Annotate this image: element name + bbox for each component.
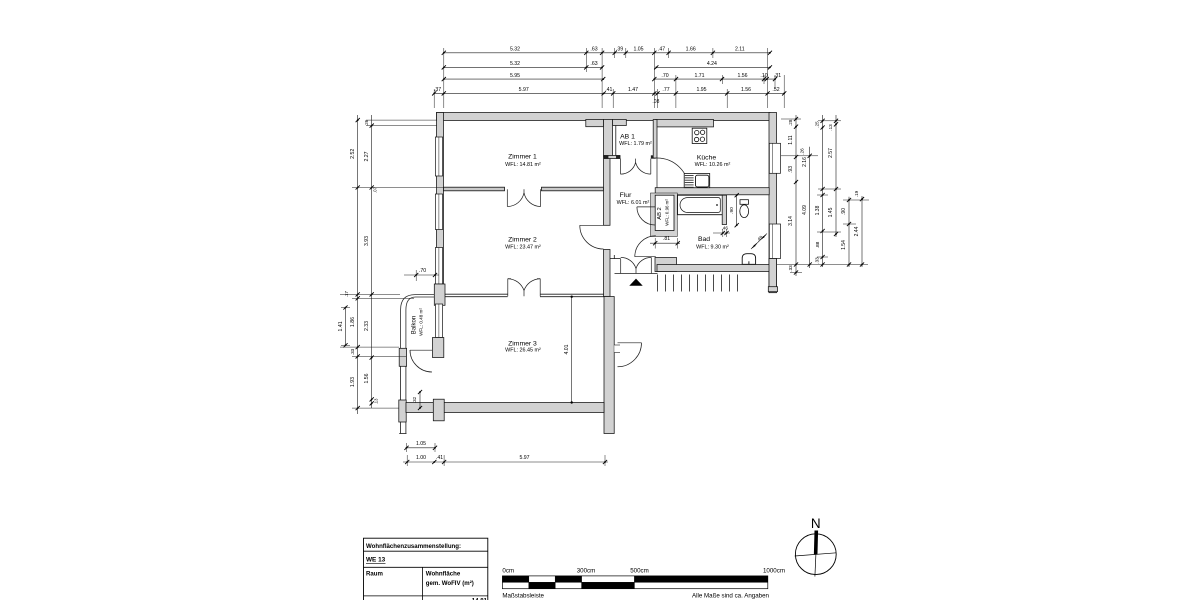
room: AB2 (white box) bbox=[651, 193, 678, 237]
svg-text:gem. WoFIV (m²): gem. WoFIV (m²) bbox=[426, 580, 474, 587]
fixture: bathtub bbox=[678, 195, 723, 215]
balcony: railing lines bottom bbox=[399, 422, 406, 434]
window: Zimmer3 upper left bbox=[435, 304, 442, 338]
svg-text:5.32: 5.32 bbox=[510, 61, 520, 67]
svg-text:1.86: 1.86 bbox=[350, 317, 356, 327]
room label: Balkon (rotated) bbox=[412, 308, 424, 336]
svg-text:1.47: 1.47 bbox=[628, 87, 638, 93]
wall: right exterior (Kueche/Bad) bbox=[769, 113, 777, 293]
svg-text:WFL: 26.45 m²: WFL: 26.45 m² bbox=[505, 347, 541, 353]
wall: right lower corner foot bbox=[768, 259, 777, 292]
dimension chain right col1: .28 1.11 .93 3.14 .33 bbox=[788, 115, 798, 276]
svg-text:.25: .25 bbox=[814, 121, 819, 128]
door: Flur to Kueche quarter arc bbox=[657, 158, 689, 190]
balcony: parapet block bbox=[399, 348, 406, 366]
dimension guides left bbox=[340, 120, 443, 408]
svg-text:WFL: 0.48 m²: WFL: 0.48 m² bbox=[419, 308, 424, 336]
window: Zimmer 2 left lower bbox=[435, 248, 442, 285]
svg-text:.17: .17 bbox=[344, 291, 349, 298]
svg-text:5.97: 5.97 bbox=[519, 455, 529, 461]
svg-text:Zimmer 1: Zimmer 1 bbox=[508, 154, 537, 161]
svg-text:5.32: 5.32 bbox=[510, 47, 520, 53]
svg-text:1.38: 1.38 bbox=[815, 205, 821, 215]
dimension chain right col6: .19 2.44 bbox=[854, 190, 864, 267]
svg-text:1.66: 1.66 bbox=[686, 47, 696, 53]
svg-text:.33: .33 bbox=[350, 348, 355, 355]
fixture: stove with 4 burners bbox=[692, 128, 707, 143]
svg-text:4.09: 4.09 bbox=[802, 205, 808, 215]
svg-text:.63: .63 bbox=[590, 61, 597, 67]
svg-text:1000cm: 1000cm bbox=[763, 567, 785, 574]
fixture: kitchen sink counter with drainer bbox=[684, 174, 710, 188]
fixture: washbasin bbox=[742, 254, 755, 265]
dimension row 2: 5.32 .63 / 4.24 bbox=[442, 61, 772, 69]
window: Bad right (recess) bbox=[769, 224, 780, 259]
wall: stairwell vertical (right of Zimmer3) bbox=[604, 297, 614, 434]
svg-text:.47: .47 bbox=[658, 47, 665, 53]
svg-text:Raum: Raum bbox=[366, 571, 384, 578]
room label: Zimmer 2 bbox=[505, 237, 541, 251]
wall: top exterior bbox=[437, 113, 771, 121]
svg-text:2.57: 2.57 bbox=[828, 148, 834, 158]
wall: AB1 bottom left segment with jambs bbox=[604, 156, 620, 159]
svg-text:1.54: 1.54 bbox=[841, 240, 847, 250]
svg-text:WFL: 6.01 m²: WFL: 6.01 m² bbox=[617, 200, 650, 206]
svg-text:2.52: 2.52 bbox=[350, 149, 356, 159]
wall: AB1 bottom right jamb bbox=[651, 156, 656, 159]
svg-text:1.56: 1.56 bbox=[737, 73, 747, 79]
dimension chain right col2: .26 2.16 4.09 bbox=[800, 147, 812, 268]
svg-text:.41: .41 bbox=[436, 455, 443, 461]
dimension chain left line A: 1.41 bbox=[338, 305, 350, 347]
dimension: .32 (bottom wall) bbox=[412, 390, 422, 410]
svg-text:Bad: Bad bbox=[698, 236, 710, 243]
table: Wohnflaechenzusammenstellung bbox=[364, 538, 488, 604]
room label: Zimmer 3 bbox=[505, 340, 541, 353]
wall: Bad bottom bbox=[655, 258, 775, 272]
dimension guides right bbox=[777, 119, 869, 273]
svg-text:Maßstabsleiste: Maßstabsleiste bbox=[502, 593, 544, 600]
north arrow compass bbox=[795, 516, 837, 577]
dimension chain right col5: .90 1.54 bbox=[841, 197, 851, 267]
door: stair landing (notch + leaf + arc) bbox=[614, 343, 641, 367]
wall: left exterior (Zimmer1+2) bbox=[437, 113, 444, 297]
svg-text:1.05: 1.05 bbox=[633, 47, 643, 53]
svg-text:.26: .26 bbox=[800, 148, 805, 155]
dimension row 3: 5.95 / .70 1.71 1.56 .10 .31 bbox=[442, 73, 782, 81]
wall: pillar on Zimmer3 bottom wall bbox=[433, 399, 444, 421]
balcony: railing top curve double line bbox=[401, 295, 435, 349]
svg-text:.88: .88 bbox=[815, 241, 821, 248]
svg-text:.19: .19 bbox=[854, 190, 859, 197]
dimension witness verticals (top) bbox=[434, 48, 784, 108]
scale bar: Massstabsleiste bbox=[502, 567, 785, 599]
svg-text:2.11: 2.11 bbox=[735, 47, 745, 53]
svg-text:2.16: 2.16 bbox=[802, 157, 808, 167]
svg-text:1.56: 1.56 bbox=[741, 87, 751, 93]
svg-text:WFL: 14.81 m²: WFL: 14.81 m² bbox=[505, 162, 541, 168]
svg-text:.77: .77 bbox=[662, 87, 669, 93]
svg-text:1.93: 1.93 bbox=[350, 377, 356, 387]
balcony: railing lines below bbox=[401, 366, 406, 400]
svg-text:3.93: 3.93 bbox=[364, 236, 370, 246]
dimension row 4: .37 5.97 .41 1.47 .77 1.95 1.56 .52 bbox=[432, 87, 786, 105]
door: Flur to Bad quarter arc bbox=[635, 236, 656, 257]
svg-text:WFL: 9.30 m²: WFL: 9.30 m² bbox=[696, 245, 729, 251]
svg-text:0cm: 0cm bbox=[502, 567, 514, 574]
door: entrance double swing arcs bbox=[621, 257, 652, 273]
wall: Zimmer2/Zimmer3 partition double line bbox=[434, 294, 604, 297]
dimension: 1.05 (bottom) bbox=[404, 441, 437, 452]
svg-text:WFL: 0.96 m²: WFL: 0.96 m² bbox=[665, 199, 670, 226]
door: Zimmer2-Zimmer3 double swing arcs bbox=[508, 279, 540, 297]
room label: Bad bbox=[696, 236, 729, 251]
svg-text:1.00: 1.00 bbox=[416, 455, 426, 461]
symbol: entrance triangle marker bbox=[629, 279, 642, 286]
wall: AB1 left thin bbox=[615, 125, 617, 155]
svg-text:.93: .93 bbox=[788, 166, 794, 173]
window: Zimmer 2 left upper bbox=[435, 194, 442, 230]
svg-text:Flur: Flur bbox=[620, 192, 632, 199]
svg-text:AB 1: AB 1 bbox=[620, 134, 635, 141]
svg-text:.52: .52 bbox=[772, 87, 779, 93]
wall: top lip above Zimmer1 right part bbox=[586, 120, 604, 127]
wall: vertical A (Zimmer1 | shaft/AB1) bbox=[604, 120, 613, 157]
wall: Zimmer3 bottom bbox=[406, 403, 604, 413]
svg-text:.26: .26 bbox=[364, 119, 369, 126]
stairs: treads bbox=[658, 275, 738, 292]
svg-text:.70: .70 bbox=[661, 73, 668, 79]
room label: Flur bbox=[617, 192, 650, 206]
svg-text:5.97: 5.97 bbox=[519, 87, 529, 93]
svg-text:Balkon: Balkon bbox=[412, 316, 418, 334]
svg-text:Wohnfläche: Wohnfläche bbox=[426, 571, 461, 578]
svg-text:.08: .08 bbox=[652, 99, 659, 105]
svg-text:4.24: 4.24 bbox=[707, 61, 717, 67]
svg-text:.33: .33 bbox=[814, 257, 819, 264]
svg-text:2.33: 2.33 bbox=[364, 321, 370, 331]
door: Flur to AB2 quarter arc bbox=[637, 207, 655, 225]
svg-text:.81: .81 bbox=[663, 236, 670, 242]
wall: junction block left (Z2/Z3 corner) bbox=[434, 284, 445, 305]
window: Zimmer 1 left bbox=[435, 137, 442, 176]
room label: AB 2 (rotated) bbox=[657, 199, 669, 226]
svg-text:Alle Maße sind ca. Angaben: Alle Maße sind ca. Angaben bbox=[692, 593, 770, 600]
svg-text:4.01: 4.01 bbox=[564, 344, 570, 354]
wall: top lip above Kueche left part bbox=[655, 120, 714, 127]
wall: step above AB1 bbox=[613, 120, 627, 126]
wall: Zimmer1/Zimmer2 partition (with door opening) bbox=[444, 187, 604, 191]
dimension chain right col4: .13 2.57 1.45 bbox=[828, 115, 838, 237]
svg-text:.33: .33 bbox=[788, 265, 793, 272]
svg-text:.28: .28 bbox=[788, 119, 793, 126]
svg-text:AB 2: AB 2 bbox=[657, 207, 663, 220]
room label: Zimmer 1 bbox=[505, 154, 541, 168]
svg-text:.41: .41 bbox=[605, 87, 612, 93]
room label: Kueche bbox=[695, 155, 731, 169]
svg-text:2.44: 2.44 bbox=[854, 226, 860, 236]
svg-text:1.71: 1.71 bbox=[694, 73, 704, 79]
svg-text:2.27: 2.27 bbox=[364, 151, 370, 161]
svg-text:300cm: 300cm bbox=[577, 567, 596, 574]
svg-text:Zimmer 3: Zimmer 3 bbox=[508, 340, 537, 347]
svg-text:WFL: 1.79 m²: WFL: 1.79 m² bbox=[619, 141, 652, 147]
wall: vertical B (Zimmer1+2 | Flur), door opening to Zimmer2 bbox=[604, 156, 611, 297]
svg-text:500cm: 500cm bbox=[630, 567, 649, 574]
dimension: .70 (balcony door width, above balcony) bbox=[404, 268, 439, 281]
svg-text:1.41: 1.41 bbox=[338, 321, 344, 331]
dimension: 4.01 (Zimmer 3 height) bbox=[564, 296, 573, 404]
dimension row bottom: 1.00 .41 5.97 bbox=[403, 455, 608, 466]
svg-text:.39: .39 bbox=[616, 47, 623, 53]
room label: AB 1 bbox=[619, 134, 652, 148]
wall: stub between bathtub and WC bbox=[722, 195, 726, 224]
svg-text:.46: .46 bbox=[722, 226, 729, 231]
svg-text:1.45: 1.45 bbox=[828, 207, 834, 217]
door: AB1 double swing arcs bbox=[621, 159, 651, 175]
wall: lower left block bbox=[399, 400, 406, 422]
dimension chain left line C: .26 2.27 3.93 2.33 1.56 .13 bbox=[364, 115, 379, 408]
svg-text:.90: .90 bbox=[729, 207, 735, 214]
svg-text:WFL: 10.26 m²: WFL: 10.26 m² bbox=[695, 162, 731, 168]
fixture: toilet WC bbox=[740, 200, 749, 218]
svg-text:.13: .13 bbox=[828, 124, 833, 131]
svg-text:.90: .90 bbox=[841, 208, 847, 215]
svg-text:.63: .63 bbox=[590, 47, 597, 53]
wall: entrance jambs and threshold bbox=[610, 255, 658, 274]
dimension chain left line B: 2.52 .17 1.86 .33 1.93 bbox=[344, 115, 360, 414]
door: balcony quarter arc bbox=[410, 350, 432, 372]
svg-text:1.56: 1.56 bbox=[364, 373, 370, 383]
svg-text:1.11: 1.11 bbox=[788, 135, 794, 145]
wall: Kueche/Bad bottom horizontal bbox=[655, 188, 769, 195]
dimension: .81 (Bad entrance) bbox=[650, 236, 680, 248]
svg-text:.70: .70 bbox=[419, 268, 426, 274]
svg-text:1.95: 1.95 bbox=[696, 87, 706, 93]
window: Kueche right (recess) bbox=[769, 143, 780, 173]
wall: Kueche left (Flur|Kueche) with door opening bbox=[653, 120, 657, 159]
dimension row 1 (top): 5.32 .63 .39 1.05 .47 1.66 2.11 bbox=[442, 47, 772, 55]
svg-text:WFL: 23.47 m²: WFL: 23.47 m² bbox=[505, 245, 541, 251]
svg-text:Küche: Küche bbox=[697, 155, 716, 162]
svg-text:.13: .13 bbox=[374, 398, 379, 404]
dimension chain right col3: .25 1.38 .88 .33 bbox=[814, 115, 824, 267]
svg-text:N: N bbox=[811, 516, 821, 531]
svg-text:3.14: 3.14 bbox=[788, 216, 794, 226]
dimension: .90 (WC niche vertical) bbox=[729, 193, 739, 227]
svg-text:.37: .37 bbox=[434, 87, 441, 93]
svg-text:.32: .32 bbox=[412, 396, 417, 403]
svg-text:1.05: 1.05 bbox=[416, 441, 426, 447]
svg-text:WE 13: WE 13 bbox=[366, 557, 386, 564]
dimension: .46 (wall stub) bbox=[713, 226, 730, 238]
wall: pier above balcony door bbox=[433, 338, 444, 358]
dimension: .49 diagonal (Bad corner) bbox=[751, 234, 767, 250]
svg-text:Zimmer 2: Zimmer 2 bbox=[508, 237, 537, 244]
svg-text:5.95: 5.95 bbox=[510, 73, 520, 79]
door: Flur to Zimmer 2 (leaf + quarter arc) bbox=[580, 225, 604, 249]
svg-text:Wohnflächenzusammenstellung:: Wohnflächenzusammenstellung: bbox=[366, 543, 461, 550]
door: Zimmer1-Zimmer2 double swing arcs bbox=[507, 189, 540, 206]
